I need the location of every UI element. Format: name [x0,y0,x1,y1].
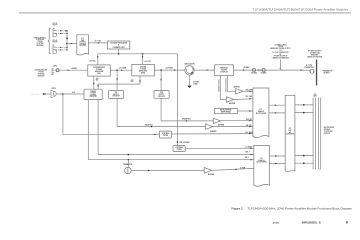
box voltage regulator / current limit U-REG [108,41,130,49]
box1 power control circuitry [84,89,102,99]
svg-text:COUPLER: COUPLER [220,72,228,74]
filter LPF1 low pass filter [160,131,172,138]
svg-text:MULTIPLEXER: MULTIPLEXER [256,113,267,115]
svg-text:J2/P2: J2/P2 [53,65,57,67]
svg-text:CIRCUITRY: CIRCUITRY [89,96,97,98]
node thermistor tap [128,159,130,161]
svg-text:Figure 2.: Figure 2. [232,206,244,210]
wire ADC to J2 columns lower (pair) [295,155,314,157]
wire 9.6V connector down to LPF1 [63,94,160,134]
wire circulator to load [189,75,191,86]
svg-text:50 OHM: 50 OHM [193,82,199,84]
wire pointer to cable [280,59,282,70]
svg-text:DETECTOR RSSI: DETECTOR RSSI [220,110,232,112]
wire box3 down and right to buffer U3 [161,98,213,121]
svg-text:+9.6: +9.6 [96,78,99,80]
svg-text:UG21B/U: UG21B/U [261,73,267,75]
wire LPF2 to mux2 [185,147,254,149]
wire pin2 upper [56,32,67,34]
svg-text:BUFFER: BUFFER [234,86,241,88]
bus vertical joining pins [66,31,68,50]
svg-text:RF INPUT/OUTPUT: RF INPUT/OUTPUT [274,56,288,58]
svg-text:FROM: FROM [39,72,44,74]
svg-text:FILTER/: FILTER/ [221,70,227,72]
connector modulated RF input [52,69,54,75]
connector J2/P2 columns [312,98,314,170]
svg-text:P/O P1: P/O P1 [53,25,58,27]
amplifier DPA [132,64,155,76]
wire buffer U5 to mux2 [212,168,254,170]
filter harmonic filter / coupler [215,65,234,76]
wire LPF1 to mux [172,133,253,135]
svg-text:POWER: POWER [90,93,95,95]
svg-text:MODULE: MODULE [36,45,44,47]
wire mux1 to ADC (pair) [269,104,285,106]
svg-text:J2/P2: J2/P2 [313,96,317,98]
brace [48,28,51,54]
label RF INPUT/OUTPUT CONNECTOR BRACKET [308,51,323,59]
svg-text:CURRENT LIMIT: CURRENT LIMIT [113,47,125,49]
wire buffer U2 to mux [234,98,253,101]
svg-text:P/O J1: P/O J1 [53,23,58,25]
node rail-regulator [118,53,120,55]
svg-text:+5.1 SENSE: +5.1 SENSE [245,147,252,149]
wire RF tap to box3 [160,70,162,91]
svg-text:FROM: FROM [278,46,283,48]
svg-text:OUTPUT: OUTPUT [324,73,330,75]
op-amp buffer U5 (temp) [204,168,212,174]
wire rail drop to DPA [142,54,144,65]
wire box1 drop B to mux2 (thermistor tap) [88,100,254,160]
wire detector to mux [237,110,253,112]
svg-text:P/O P2: P/O P2 [53,42,58,44]
svg-text:DETECT: DETECT [113,94,119,96]
wire DPA to circulator, +34.7 DBM [154,69,184,71]
svg-text:+9.6 VDC: +9.6 VDC [89,61,96,63]
svg-text:BUFFER: BUFFER [208,174,215,176]
ADC box P/O LVIC A/D converter (wavy bottom) [285,95,295,172]
svg-text:CONNECTOR: CONNECTOR [304,67,315,69]
svg-text:CIRCUITRY: CIRCUITRY [112,96,120,98]
connector J2/P2 (lower) [53,45,55,54]
connector control input [51,90,53,97]
svg-text:VDC: VDC [131,81,134,83]
svg-text:FROM: FROM [38,41,43,43]
svg-text:N- TYPE CONNECTOR: N- TYPE CONNECTOR [273,52,290,54]
svg-text:PWR: PWR [81,40,84,42]
svg-text:MULTIPLEXED: MULTIPLEXED [324,127,335,129]
wire RF tap to box2 [116,70,118,90]
op-amp buffer U2 (reflected) [226,97,234,102]
svg-text:VDC: VDC [96,80,99,82]
wire rail drop to IPA [97,54,99,65]
svg-text:9.6V_SENSE: 9.6V_SENSE [245,132,253,134]
wire IPA to DPA, +27.5 DBM [110,69,132,71]
svg-text:68P81083E51- B: 68P81083E51- B [302,222,321,225]
svg-text:(TEMP SENSE): (TEMP SENSE) [221,112,231,114]
connector N-type [310,69,314,73]
svg-text:MODULE: MODULE [324,133,331,135]
svg-text:CONTROL: CONTROL [90,94,97,96]
box3 DPA detect circuitry [154,91,169,99]
svg-text:BUFFER: BUFFER [229,103,236,105]
op-amp buffer U3 (DPA det) [213,118,220,123]
svg-text:4/1/99: 4/1/99 [273,222,280,225]
wire pin1 lower [56,46,67,48]
svg-text:DRIVER: DRIVER [140,67,147,69]
svg-text:+7.5: +7.5 [131,79,134,81]
svg-text:N- TYPE: N- TYPE [306,65,312,67]
wire bus to control box [67,43,77,45]
svg-text:SYSTEM: SYSTEM [38,73,45,75]
svg-text:CONNECTOR: CONNECTOR [310,53,321,55]
wire thermistor to buffer U5 [131,169,204,171]
node rail-DPA drop [142,53,144,55]
op-amp buffer U4 (IPA det) [206,124,213,129]
svg-text:MULTIPLEXER: MULTIPLEXER [256,162,267,164]
label: PWR CONTROL VOLTAGE FROM SYSTEM MODULE [34,37,46,47]
wire box1 drop A to mux2 [98,100,254,155]
ground 50 ohm load arrow [187,86,191,88]
amplifier IPA [88,65,111,76]
svg-text:P/O: P/O [289,128,291,130]
connector cable plug 1 [252,68,255,71]
svg-text:P/O: P/O [81,38,83,40]
sensor detector RSSI box [214,108,237,113]
svg-text:+50 DBM: +50 DBM [243,67,250,69]
svg-text:DETECT: DETECT [159,94,165,96]
label MODULATED RF FROM SYSTEM MODULE [35,69,48,78]
svg-text:FWD_PWR: FWD_PWR [246,90,253,92]
wire DPA bottom to box1 (L-shape) [98,76,140,89]
wire box to regulator, +9.7 VDC [89,42,108,44]
wire connector to box1 [57,93,85,95]
wire regulator down to power rail [118,49,120,54]
wire rail corner down to LPF2 [176,54,178,146]
svg-text:UG21B/U: UG21B/U [251,73,257,75]
connector J1/P1 (upper) [53,28,55,37]
label MULTIPLEXED SIGNALS TO SYSTEM MODULE [324,127,335,135]
svg-text:CIRCUITRY: CIRCUITRY [158,96,166,98]
connector cable plug 2 [262,68,265,71]
header rule [19,12,351,13]
svg-text:TLF1940A (900 MHz, 20W) Power: TLF1940A (900 MHz, 20W) Power Amplifier … [248,206,353,210]
svg-text:REF_V: REF_V [245,157,249,159]
svg-text:SYSTEM: SYSTEM [37,43,44,45]
coupler reflected sense drop [227,76,235,92]
svg-text:CIRCUITRY: CIRCUITRY [79,45,86,47]
wire circulator to harmonic filter [194,69,214,71]
svg-text:J2/P12: J2/P12 [51,88,56,90]
svg-text:MODULE: MODULE [38,75,45,77]
wire mux2 to ADC (pair) [269,155,285,157]
wire buffer U1 to mux [243,90,253,92]
wire buffer U4 to mux [213,126,253,128]
svg-text:BUFFER: BUFFER [218,124,225,126]
wire RF input to IPA, +4 DBM [59,69,88,71]
wire filter to RF output, +50 DBM [234,69,310,71]
wire power rail [98,53,178,55]
wire pin2 lower [56,49,67,51]
wire IPA bottom to box1 [93,76,95,89]
box P/O control circuitry (wavy bottom) [77,35,89,55]
svg-text:+9.6 VDC: +9.6 VDC [144,61,151,63]
svg-text:TO SYSTEM: TO SYSTEM [324,131,333,133]
wire buffer U3 to mux [221,120,253,122]
wire box2 down and right to buffer U4 [117,99,206,127]
node rail sense tap [177,141,179,143]
svg-text:LVIC: LVIC [289,130,292,132]
mating marks [258,69,260,71]
filter LPF2 low pass filter [173,146,185,152]
svg-text:POWER: POWER [96,69,103,71]
label coaxial cable pointer text [270,43,290,59]
node bus junction [66,43,68,45]
svg-text:RFL_PWR: RFL_PWR [246,96,252,98]
svg-text:P/O J2: P/O J2 [53,40,58,42]
svg-text:PWR CONTROL: PWR CONTROL [34,37,46,39]
wire pin1 upper [56,30,67,32]
svg-text:TLF1600A/TLF1940A/TLF1960A/TLF: TLF1600A/TLF1940A/TLF1960A/TLF1920A Powe… [253,8,349,12]
svg-text:REFLECTED POWER: REFLECTED POWER [226,78,228,92]
svg-text:FILTER: FILTER [163,135,168,137]
bracket bar [316,60,317,86]
svg-text:9.6V: 9.6V [72,92,75,94]
svg-text:RF INPUT/OUTPUT: RF INPUT/OUTPUT [308,51,322,53]
svg-text:CNTL_V: CNTL_V [245,152,250,154]
mux2 analog multiplexer (wavy bottom) [254,146,269,187]
svg-text:+27.5 DBM: +27.5 DBM [119,68,127,70]
svg-text:9: 9 [346,220,348,224]
svg-text:CONVERTER: CONVERTER [286,134,294,136]
svg-text:BUFFER: BUFFER [210,131,217,133]
mux1 analog multiplexer (wavy bottom) [253,88,269,138]
box2 IPA detect circuitry [109,90,124,98]
wire control input arrow [43,93,48,95]
svg-text:FILTER: FILTER [177,149,182,151]
svg-text:POWER: POWER [140,69,147,71]
node before N connector [300,69,302,70]
coupler forward sense drop [220,76,226,100]
svg-text:THERMISTOR: THERMISTOR [123,164,132,166]
svg-text:CONTROL: CONTROL [79,42,86,44]
wire ADC to J2 columns (pair) [295,104,314,106]
